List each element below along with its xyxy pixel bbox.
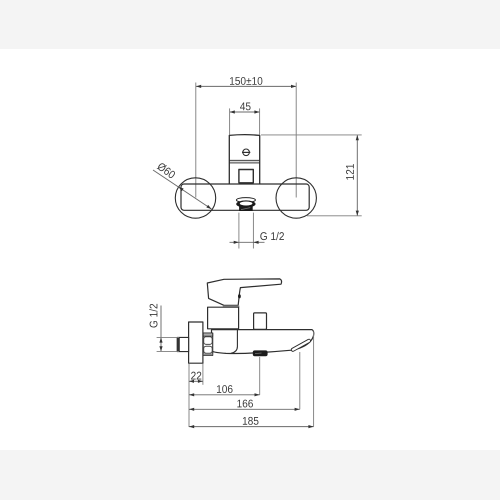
mixer cartridge body (front) bbox=[229, 135, 259, 184]
dim 45 arrow left bbox=[230, 110, 235, 113]
dim 185 arrow left bbox=[189, 425, 194, 428]
handle lever bbox=[207, 279, 281, 305]
diverter knob (top) bbox=[254, 313, 267, 329]
dim 121 line bbox=[356, 135, 358, 216]
dim G1/2 (front) line bbox=[230, 241, 265, 243]
diameter leader line O60 bbox=[153, 170, 212, 209]
nut bottom band bbox=[203, 353, 212, 355]
ext spout tip x=313.6 bbox=[313, 332, 315, 427]
dim 166 line bbox=[189, 408, 300, 410]
dim G1/2 (front) ext left bbox=[238, 213, 240, 249]
label Ø60 bbox=[157, 163, 176, 178]
aerator nut block (front) bbox=[239, 206, 253, 211]
dim 121 arrow top bbox=[356, 135, 359, 140]
dim 22 arrow right bbox=[198, 380, 203, 383]
dim 45 arrow right bbox=[254, 110, 259, 113]
O60 arrow lower-right bbox=[206, 205, 212, 211]
diverter square (front) bbox=[239, 170, 253, 183]
hex nut bbox=[203, 333, 213, 355]
label 166 bbox=[237, 400, 253, 408]
bottom grey band bbox=[0, 450, 500, 500]
label 45 bbox=[240, 102, 251, 110]
label 106 bbox=[217, 385, 233, 393]
body and spout profile bbox=[212, 330, 314, 354]
label 150±10 bbox=[230, 77, 262, 85]
dim 121 ext top bbox=[261, 134, 362, 136]
dim 150 ext left bbox=[195, 83, 197, 198]
dim 121 arrow bottom bbox=[356, 211, 359, 216]
flange circle right bbox=[276, 178, 316, 218]
dim 45 line bbox=[230, 111, 260, 113]
label 185 bbox=[243, 417, 259, 425]
G1/2 side arrow up bbox=[159, 337, 162, 342]
dim 166 arrow left bbox=[189, 408, 194, 411]
aerator ring (front) bbox=[236, 200, 255, 207]
flange circle left bbox=[175, 178, 215, 218]
diverter pull knob (below spout) bbox=[253, 350, 268, 356]
dim 22 line bbox=[189, 380, 203, 382]
dim 185 arrow right bbox=[308, 425, 313, 428]
dim 185 line bbox=[189, 426, 314, 428]
dim 22 arrow left bbox=[189, 380, 194, 383]
handle gap shading bbox=[223, 306, 240, 308]
G1/2 side tick bottom bbox=[157, 350, 179, 352]
G1/2 side arrow down bbox=[159, 346, 162, 351]
dim 106 arrow left bbox=[189, 393, 194, 396]
spout cup rim (front) bbox=[236, 198, 255, 203]
wall flange (side) bbox=[189, 322, 203, 363]
label G 1/2 front bbox=[260, 232, 284, 240]
dim 150 arrow left bbox=[196, 85, 201, 88]
nut top cap bbox=[203, 333, 213, 336]
G1/2 front arrow left (outside) bbox=[234, 241, 239, 244]
dim 45 ext left bbox=[229, 108, 231, 134]
dim 106 line bbox=[189, 394, 260, 396]
nut facet lower bbox=[204, 346, 213, 353]
dim G1/2 (side) leader line bbox=[160, 306, 162, 352]
aerator strip at spout tip bbox=[291, 339, 311, 352]
nut facet upper bbox=[204, 337, 213, 345]
ext wall line x=189 bbox=[188, 363, 190, 427]
cartridge neck box bbox=[208, 307, 239, 329]
screw S1 bbox=[243, 149, 250, 156]
top grey band bbox=[0, 0, 500, 49]
dim G1/2 (front) ext right bbox=[252, 213, 254, 249]
pipe end cap bbox=[177, 337, 180, 351]
body separation double line bbox=[230, 160, 260, 163]
O60 arrow upper-left bbox=[178, 186, 184, 192]
G1/2 front arrow right (outside) bbox=[253, 241, 258, 244]
label G 1/2 side bbox=[149, 304, 157, 328]
body-spout joint line bbox=[231, 330, 237, 354]
supply pipe bbox=[177, 337, 188, 351]
dim 150 arrow right bbox=[291, 85, 296, 88]
ext outlet x=299.8 bbox=[299, 352, 301, 409]
G1/2 side tick top bbox=[157, 336, 179, 338]
label 22 bbox=[191, 372, 201, 380]
label 121 bbox=[346, 164, 354, 180]
dim 106 arrow right bbox=[255, 393, 260, 396]
dim 150±10 line bbox=[196, 85, 296, 87]
handle dot bbox=[238, 294, 241, 298]
dim 45 ext right bbox=[259, 108, 261, 134]
wall bar bbox=[181, 184, 309, 210]
dim 121 ext bottom bbox=[307, 215, 362, 217]
ext knob x=259.7 bbox=[259, 357, 261, 395]
dim 166 arrow right bbox=[295, 408, 300, 411]
dim 150 ext right bbox=[295, 83, 297, 198]
ext flange right x=203 bbox=[202, 363, 204, 384]
